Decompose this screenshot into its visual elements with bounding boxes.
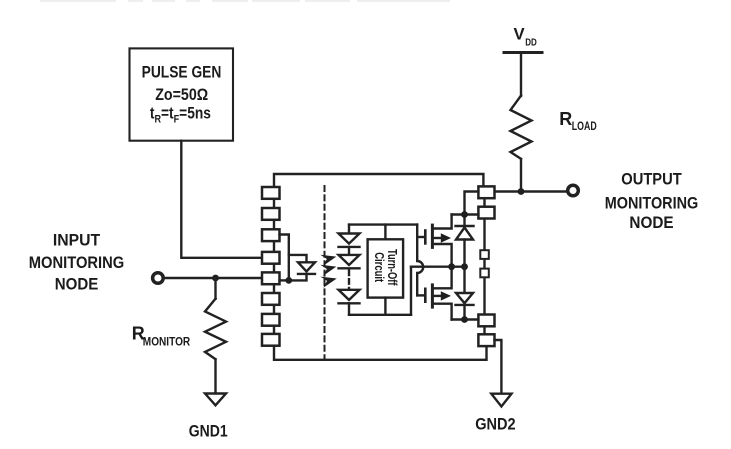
pin L1 [262,187,280,199]
svg-text:V: V [514,24,526,43]
svg-text:Zo=50Ω: Zo=50Ω [155,85,208,104]
pin R1 [478,186,494,198]
wire PD3 to bottom rail [348,303,350,315]
light arrow 1 [320,251,337,266]
wire turn-off box bottom stub [384,298,386,315]
power symbol VDD bar [504,51,542,54]
pin R2 [478,207,494,219]
transistor Q2 channel bar [431,285,434,307]
svg-text:Circuit: Circuit [372,252,387,282]
svg-text:GND1: GND1 [189,421,228,440]
pin L4 [262,252,280,264]
pin L7 [262,314,280,326]
wire stack stub top [348,225,350,234]
transistor Q1 gate bar [424,231,427,244]
transistor Q1 bulk arrow [441,233,451,242]
svg-text:INPUT: INPUT [53,231,101,250]
ground GND1 symbol [205,394,226,406]
node drain2 junction dot [461,316,468,323]
IC package outline [274,174,483,187]
wire pin L5 to LED cathode node [280,279,289,281]
wire pin R4 to GND2 [495,340,502,394]
resistor R_MONITOR [205,299,226,360]
wire DB1 to source line [463,240,465,267]
wire Q2 drain to pin R3 [452,318,479,320]
diode DB2 triangle [456,293,473,303]
svg-text:NODE: NODE [629,213,673,232]
wire input node to R_MONITOR [214,278,216,299]
svg-text:R: R [559,109,572,129]
wire source line to bottom rail [410,267,412,315]
svg-text:NODE: NODE [55,275,99,294]
photodiode PD3 [339,290,360,300]
photodiode stack top rail [349,223,417,225]
pin R4 [478,334,494,346]
wire pin L3 to LED anode [280,235,289,281]
svg-text:LOAD: LOAD [572,121,597,133]
node Q1 source dot [448,263,455,270]
wire turn-off box top stub [384,225,386,240]
LED D_in cathode lead [289,274,307,281]
input terminal circle [153,273,164,284]
wire VDD to R_LOAD [520,53,522,97]
photodiode PD1 [339,234,360,244]
transistor Q1 drain [432,215,451,229]
pin R3 [478,315,494,327]
photodiode PD2 [339,255,360,265]
pin L3 [262,229,280,241]
node drain junction dot [461,211,468,218]
node diode column source dot [461,263,468,270]
svg-text:PULSE GEN: PULSE GEN [142,62,222,81]
diode DB1 cathode bar [456,225,474,227]
square S1 right edge [480,250,489,259]
ground GND2 symbol [491,394,511,407]
svg-text:OUTPUT: OUTPUT [621,170,682,189]
cropped text artifacts top edge [40,0,450,2]
pin L2 [262,208,280,220]
transistor Q1 gate lead [417,236,425,238]
pin L6 [262,293,280,305]
svg-text:MONITORING: MONITORING [605,193,699,212]
transistor Q2 gate lead [417,294,425,296]
diode DB1 triangle [456,228,473,240]
node input junction dot [212,275,219,282]
transistor Q2 gate bar [424,289,427,302]
wire DB2 to pin R3 line [463,305,465,320]
diode DB2 cathode bar [456,304,474,306]
light arrow 2 [320,261,337,276]
transistor Q2 bulk arrow [441,291,451,300]
wire input terminal to pin5 left [165,277,262,279]
wire PD2 to PD3 dashed [348,271,350,290]
svg-text:GND2: GND2 [475,415,515,434]
pin L8 [262,334,280,346]
transistor Q2 source [432,267,451,289]
light arrow 3 [320,273,338,288]
transistor Q1 bulk lead [432,237,441,239]
wire R_LOAD to output node [520,159,522,192]
output terminal circle [568,185,579,196]
turn-off circuit box [368,239,404,297]
svg-text:MONITOR: MONITOR [143,337,191,349]
pulse generator box PG [130,48,234,140]
wire output node to terminal [495,190,567,192]
resistor R_LOAD [511,96,532,159]
wire pin R1 to diode column [465,192,479,227]
wire pulse gen output to pin4 left [181,141,262,258]
LED D_in anode lead [289,255,307,262]
pin L5 [262,272,280,284]
transistor Q1 channel bar [431,225,434,247]
svg-text:DD: DD [525,37,537,49]
photodiode stack bottom rail [349,314,411,316]
svg-text:MONITORING: MONITORING [29,253,125,272]
wire drain line to pin R2 [452,213,479,215]
transistor Q2 bulk lead [432,295,441,297]
node output junction dot [518,188,525,195]
LED D_in cathode bar [298,273,315,275]
wire R_MONITOR to GND1 [214,360,216,394]
square S2 right edge [480,269,489,278]
wire gate rail with hop [417,225,423,296]
transistor Q2 drain [432,304,451,320]
LED D_in triangle [298,262,315,271]
node LED cathode dot [285,277,292,284]
wire PD1 to PD2 [348,247,350,255]
dashed isolation line [324,186,326,359]
wire source line to DB2 [463,267,465,293]
wire common source line [411,266,465,268]
transistor Q1 source [432,244,451,267]
